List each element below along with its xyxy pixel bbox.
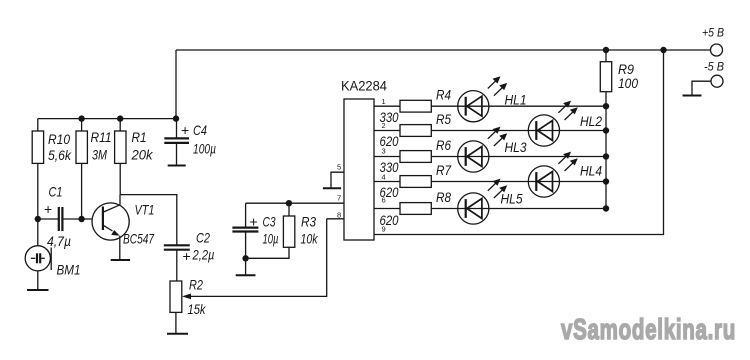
svg-text:HL4: HL4 — [580, 163, 602, 179]
node junction HL2 rail — [603, 127, 609, 133]
ground below VT1 emitter — [111, 259, 130, 261]
svg-text:R3: R3 — [301, 214, 316, 230]
LED anode rail — [605, 92, 607, 209]
wire collector branch to C2 — [120, 195, 177, 246]
node junction R11 top — [78, 115, 84, 121]
wire node B to VT1 base — [82, 218, 103, 220]
node junction R9 top rail — [603, 47, 609, 53]
svg-text:15k: 15k — [188, 301, 207, 317]
wire HL1 to rail — [489, 105, 606, 107]
svg-text:HL5: HL5 — [501, 191, 523, 207]
resistor R10 — [37, 119, 39, 131]
svg-text:100: 100 — [618, 75, 638, 91]
wire pin7 rail to C3/R3 — [246, 202, 344, 204]
wire BM1 to ground — [37, 271, 39, 290]
resistor R4 — [400, 100, 431, 112]
capacitor C1 — [58, 207, 60, 231]
wire R2 wiper to pin 8 — [184, 219, 327, 297]
ground below BM1 — [27, 289, 49, 291]
svg-text:10µ: 10µ — [263, 231, 279, 247]
wire HL5 to rail — [489, 208, 606, 210]
node junction HL3 rail — [603, 153, 609, 159]
svg-text:3: 3 — [382, 147, 386, 156]
svg-text:6: 6 — [382, 196, 386, 205]
capacitor C2 — [164, 244, 190, 246]
svg-text:10k: 10k — [301, 231, 319, 247]
microphone BM1 — [37, 219, 39, 246]
LED HL4 — [528, 152, 602, 197]
svg-text:R2: R2 — [189, 277, 203, 293]
resistor R8 — [400, 203, 431, 215]
svg-text:C3: C3 — [263, 214, 276, 230]
svg-text:-5 В: -5 В — [704, 62, 724, 74]
svg-text:R11: R11 — [91, 129, 112, 145]
svg-text:7: 7 — [337, 193, 341, 202]
svg-text:BM1: BM1 — [57, 262, 81, 278]
wire C1 to node B — [62, 218, 81, 220]
resistor R9 — [605, 50, 607, 62]
wire HL4 to rail — [559, 181, 606, 183]
resistor R3 — [288, 203, 290, 216]
svg-text:3M: 3M — [92, 147, 107, 163]
ground below R2 — [167, 333, 188, 335]
svg-text:4,7µ: 4,7µ — [47, 233, 71, 249]
ground pin 5 — [323, 187, 341, 189]
wire -5V to ground — [692, 81, 711, 95]
wire R2 bottom to ground — [175, 312, 177, 333]
ground below C4 — [168, 165, 186, 167]
node junction HL1 rail — [603, 103, 609, 109]
resistor R11 — [81, 119, 83, 131]
resistor R1 — [119, 119, 121, 131]
capacitor C4 — [176, 119, 178, 139]
node junction R3 top — [286, 200, 292, 206]
wire HL3 to rail — [489, 156, 606, 158]
svg-text:C1: C1 — [49, 184, 63, 200]
node junction HL4 rail — [603, 178, 609, 184]
svg-text:R4: R4 — [436, 87, 451, 103]
svg-text:5,6k: 5,6k — [48, 147, 72, 163]
terminal -5V — [711, 75, 723, 87]
node B (R11/C1/VT1 base) — [78, 216, 84, 222]
wire VT1 emitter to ground — [119, 236, 121, 260]
svg-text:2,2µ: 2,2µ — [192, 247, 215, 263]
wire VT1 collector — [119, 195, 121, 205]
resistor R7 — [400, 176, 431, 188]
wire input stage top rail — [38, 118, 176, 120]
node junction HL5 rail — [603, 205, 609, 211]
svg-text:+: + — [183, 248, 191, 264]
node A (R10/C1/BM1) — [35, 216, 41, 222]
svg-text:HL3: HL3 — [505, 139, 527, 155]
node junction R1 top — [117, 115, 123, 121]
terminal +5V — [711, 44, 723, 56]
svg-text:R8: R8 — [436, 189, 451, 205]
resistor R5 — [400, 125, 431, 137]
svg-text:R10: R10 — [48, 131, 70, 147]
ground -5V — [683, 95, 702, 97]
resistor R6 — [400, 151, 431, 163]
svg-text:R7: R7 — [436, 162, 452, 178]
wire +5V top rail — [176, 49, 711, 51]
svg-text:100µ: 100µ — [193, 141, 216, 157]
svg-text:1: 1 — [382, 97, 386, 106]
svg-text:20k: 20k — [131, 147, 154, 163]
potentiometer R2 — [170, 281, 182, 312]
transistor VT1 — [92, 203, 129, 240]
svg-text:R5: R5 — [436, 111, 451, 127]
ground below C3 — [236, 274, 256, 276]
node junction C3/R3 bottom — [242, 255, 248, 261]
node junction +5V feed — [660, 47, 666, 53]
svg-text:+: + — [250, 214, 258, 230]
LED HL5 — [458, 179, 523, 224]
IC U1 KA2284 — [344, 99, 374, 240]
svg-text:+5 В: +5 В — [702, 28, 724, 40]
svg-text:2: 2 — [382, 121, 386, 130]
svg-text:+: + — [44, 201, 52, 217]
svg-text:9: 9 — [382, 225, 386, 234]
wire node A to C1 — [38, 218, 59, 220]
node junction C4 top — [173, 115, 179, 121]
svg-text:HL1: HL1 — [505, 92, 527, 108]
svg-text:5: 5 — [337, 162, 341, 171]
wire feed from top rail down to input stage rail — [175, 50, 177, 119]
LED HL3 — [458, 127, 527, 172]
capacitor C3 — [245, 203, 247, 227]
svg-text:HL2: HL2 — [580, 113, 602, 129]
LED HL1 — [458, 76, 527, 122]
wire HL2 to rail — [559, 130, 606, 132]
svg-text:KA2284: KA2284 — [341, 78, 387, 94]
svg-text:BC547: BC547 — [123, 231, 155, 247]
svg-text:R6: R6 — [436, 137, 451, 153]
LED HL2 — [528, 101, 602, 147]
svg-text:4: 4 — [382, 172, 386, 181]
svg-text:+: + — [181, 122, 189, 138]
svg-text:vSamodelkina.ru: vSamodelkina.ru — [561, 314, 736, 346]
svg-text:R1: R1 — [132, 129, 147, 145]
svg-text:VT1: VT1 — [135, 202, 155, 218]
svg-text:C4: C4 — [193, 122, 207, 138]
svg-text:C2: C2 — [196, 230, 210, 246]
wire C3 bottom to ground — [245, 258, 247, 275]
